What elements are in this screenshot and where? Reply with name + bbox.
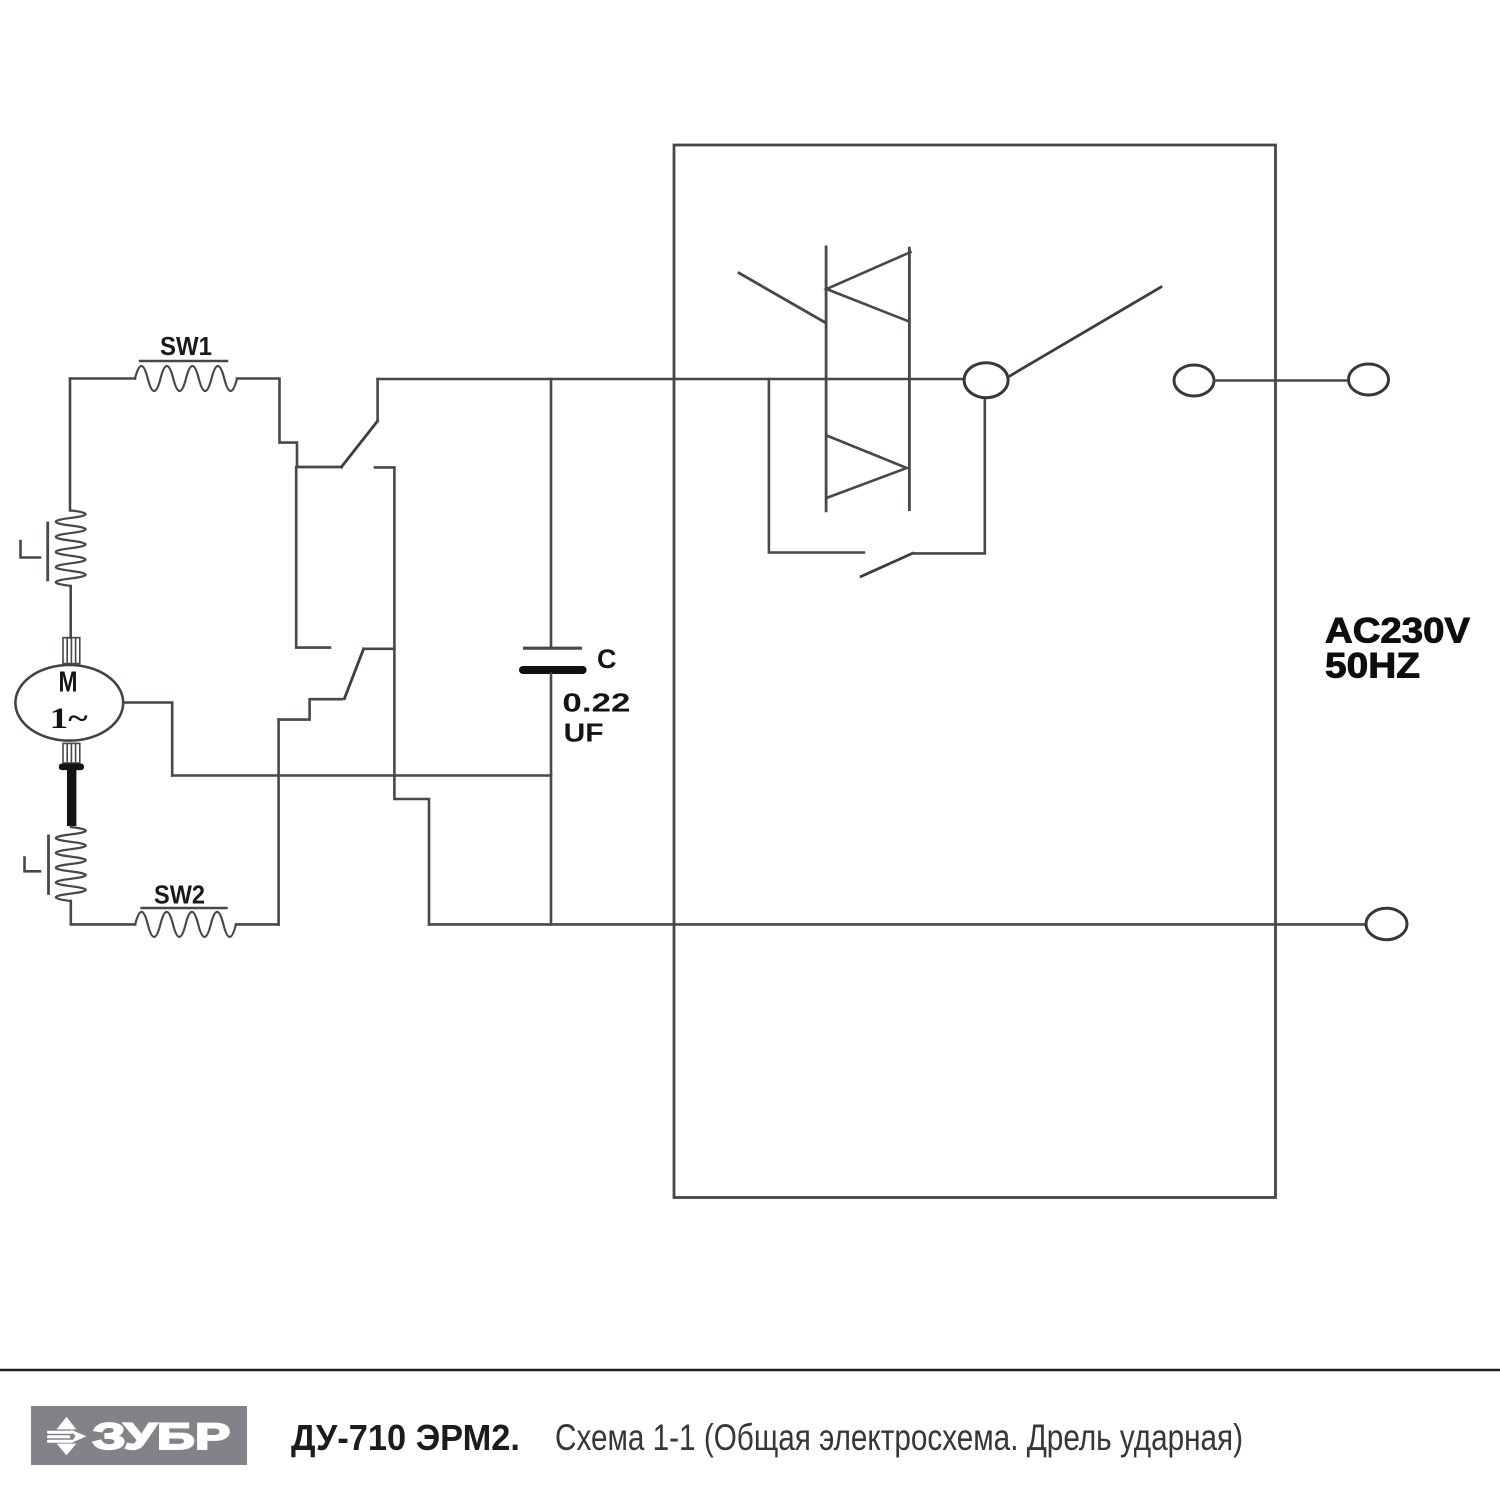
label AC230V 50HZ [1325,612,1471,686]
resistor SW2 coil [135,912,236,937]
capacitor C top plate [525,647,581,650]
svg-text:0.22: 0.22 [562,688,630,718]
svg-text:SW2: SW2 [154,880,205,910]
ZUBR logo icon bottom triangle [57,1444,77,1456]
inductor L (lower field winding) [56,827,86,901]
reversing switch common vertical [296,467,330,648]
label C [597,644,617,674]
triac gate lead [739,273,825,322]
motor label M [59,667,78,699]
triac right bar [908,248,911,509]
bypass switch branch left [769,379,864,553]
label UF [564,718,604,748]
svg-text:ДУ-710 ЭРМ2.: ДУ-710 ЭРМ2. [291,1417,520,1458]
capacitor C bottom plate [523,666,583,674]
wire left vertical down to L [69,379,72,511]
motor M ellipse [15,665,123,741]
svg-text:M: M [59,667,78,699]
wire lower L to SW2 [71,901,135,924]
wire top-left lead to SW1 [70,377,135,380]
svg-text:SW1: SW1 [160,331,212,361]
svg-text:UF: UF [564,718,604,748]
main switch blade [1008,287,1161,377]
wire SW2 right lead [236,923,279,926]
reversing switch upper blade [341,421,377,467]
ZUBR logo icon bars [47,1431,74,1443]
svg-text:Схема 1-1 (Общая электросхема.: Схема 1-1 (Общая электросхема. Дрель уда… [555,1417,1243,1458]
wire mains top run [378,378,964,381]
svg-text:AC230V: AC230V [1325,612,1471,651]
motor label 1~ [50,702,88,735]
label L (lower) [25,858,41,872]
wire L to upper brush [69,586,72,638]
svg-text:ЗУБР: ЗУБР [92,1416,230,1457]
supply terminal circle top [1349,364,1389,395]
footer separator line [0,1369,1500,1371]
terminal circle A (triac output) [964,363,1008,398]
core bar of lower L [47,836,50,894]
inductor L (upper field winding) [56,510,86,586]
ZUBR logo icon arrow chevron [71,1430,87,1444]
commutator thick bar [67,769,76,826]
underline of SW1 label [140,360,227,363]
svg-text:1~: 1~ [50,702,88,735]
wire blade top to mains line [376,379,379,421]
ZUBR logo icon top triangle [57,1417,77,1430]
node vertical from reversing switch to SW2 wire [277,720,280,925]
underline of SW2 label [142,907,227,910]
wire capacitor bottom lead [550,674,553,925]
supply terminal circle bottom [1366,908,1407,939]
brush upper (hatched) [63,638,80,664]
bypass switch branch right [913,398,985,554]
reversing switch lower blade [344,649,363,699]
label SW1 [160,331,212,361]
wire capacitor top lead [550,379,553,647]
terminal circle B [1174,365,1214,396]
label 0.22 [562,688,630,718]
wire lower blade to armature vertical [364,647,395,650]
wire bottom run to right terminal [429,923,1366,926]
bypass switch blade [861,553,913,576]
ZUBR logo grey box [31,1406,247,1465]
triac upper triangle [827,252,911,321]
wire SW1 to upper switch corner [237,379,341,468]
label L (upper) [21,541,41,558]
commutator thick bar cap [59,764,84,771]
reversing switch lower contact steps [279,699,342,719]
wire circle B to supply terminal [1214,379,1349,382]
label SW2 [154,880,205,910]
resistor SW1 coil [135,366,237,391]
wire mid horizontal to capacitor [172,774,551,777]
triac lower triangle [827,436,907,498]
svg-text:C: C [597,644,617,674]
wire motor terminal to mid node [123,703,172,776]
triac left bar [825,247,828,511]
svg-text:50HZ: 50HZ [1325,647,1420,686]
reversing switch upper contact [297,466,341,469]
brush lower (hatched) [63,743,80,763]
core bar of upper L [46,523,49,580]
enclosure box (switch unit) [674,145,1276,1198]
wire armature branch stub and vertical [375,467,429,924]
